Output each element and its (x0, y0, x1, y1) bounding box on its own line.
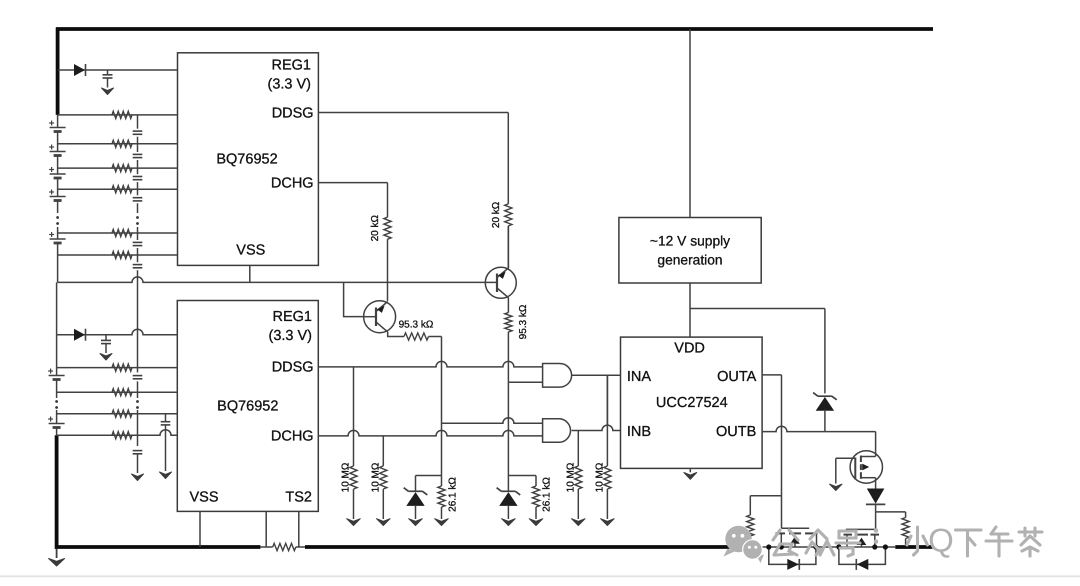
svg-text:VSS: VSS (236, 243, 265, 259)
svg-text:UCC27524: UCC27524 (656, 395, 728, 411)
svg-text:VSS: VSS (190, 490, 219, 506)
svg-text:TS2: TS2 (285, 490, 312, 506)
svg-text:BQ76952: BQ76952 (217, 398, 278, 414)
svg-text:OUTA: OUTA (717, 369, 757, 385)
svg-text:DDSG: DDSG (272, 105, 314, 121)
svg-text:20 kΩ: 20 kΩ (370, 214, 381, 241)
svg-text:(3.3 V): (3.3 V) (267, 76, 311, 92)
svg-text:~12 V supply: ~12 V supply (650, 233, 730, 248)
svg-text:REG1: REG1 (272, 57, 312, 73)
svg-text:20 kΩ: 20 kΩ (491, 201, 502, 228)
svg-text:INB: INB (627, 424, 651, 440)
svg-text:10 MΩ: 10 MΩ (594, 462, 605, 492)
svg-text:BQ76952: BQ76952 (216, 152, 277, 168)
svg-text:REG1: REG1 (273, 309, 313, 325)
svg-text:10 MΩ: 10 MΩ (341, 462, 352, 492)
svg-text:10 MΩ: 10 MΩ (370, 462, 381, 492)
svg-text:VDD: VDD (674, 340, 705, 356)
svg-text:Q: Q (928, 522, 954, 559)
svg-text:DDSG: DDSG (272, 360, 314, 376)
svg-text:DCHG: DCHG (271, 175, 314, 191)
svg-text:10 MΩ: 10 MΩ (565, 462, 576, 492)
svg-text:(3.3 V): (3.3 V) (268, 328, 312, 344)
svg-text:OUTB: OUTB (716, 424, 756, 440)
svg-text:26.1 kΩ: 26.1 kΩ (448, 477, 459, 512)
svg-text:INA: INA (627, 369, 652, 385)
svg-text:DCHG: DCHG (271, 428, 314, 444)
svg-text:generation: generation (657, 252, 722, 267)
svg-text:95.3 kΩ: 95.3 kΩ (518, 304, 529, 339)
svg-text:26.1 kΩ: 26.1 kΩ (542, 477, 553, 512)
svg-text:95.3 kΩ: 95.3 kΩ (399, 319, 434, 330)
